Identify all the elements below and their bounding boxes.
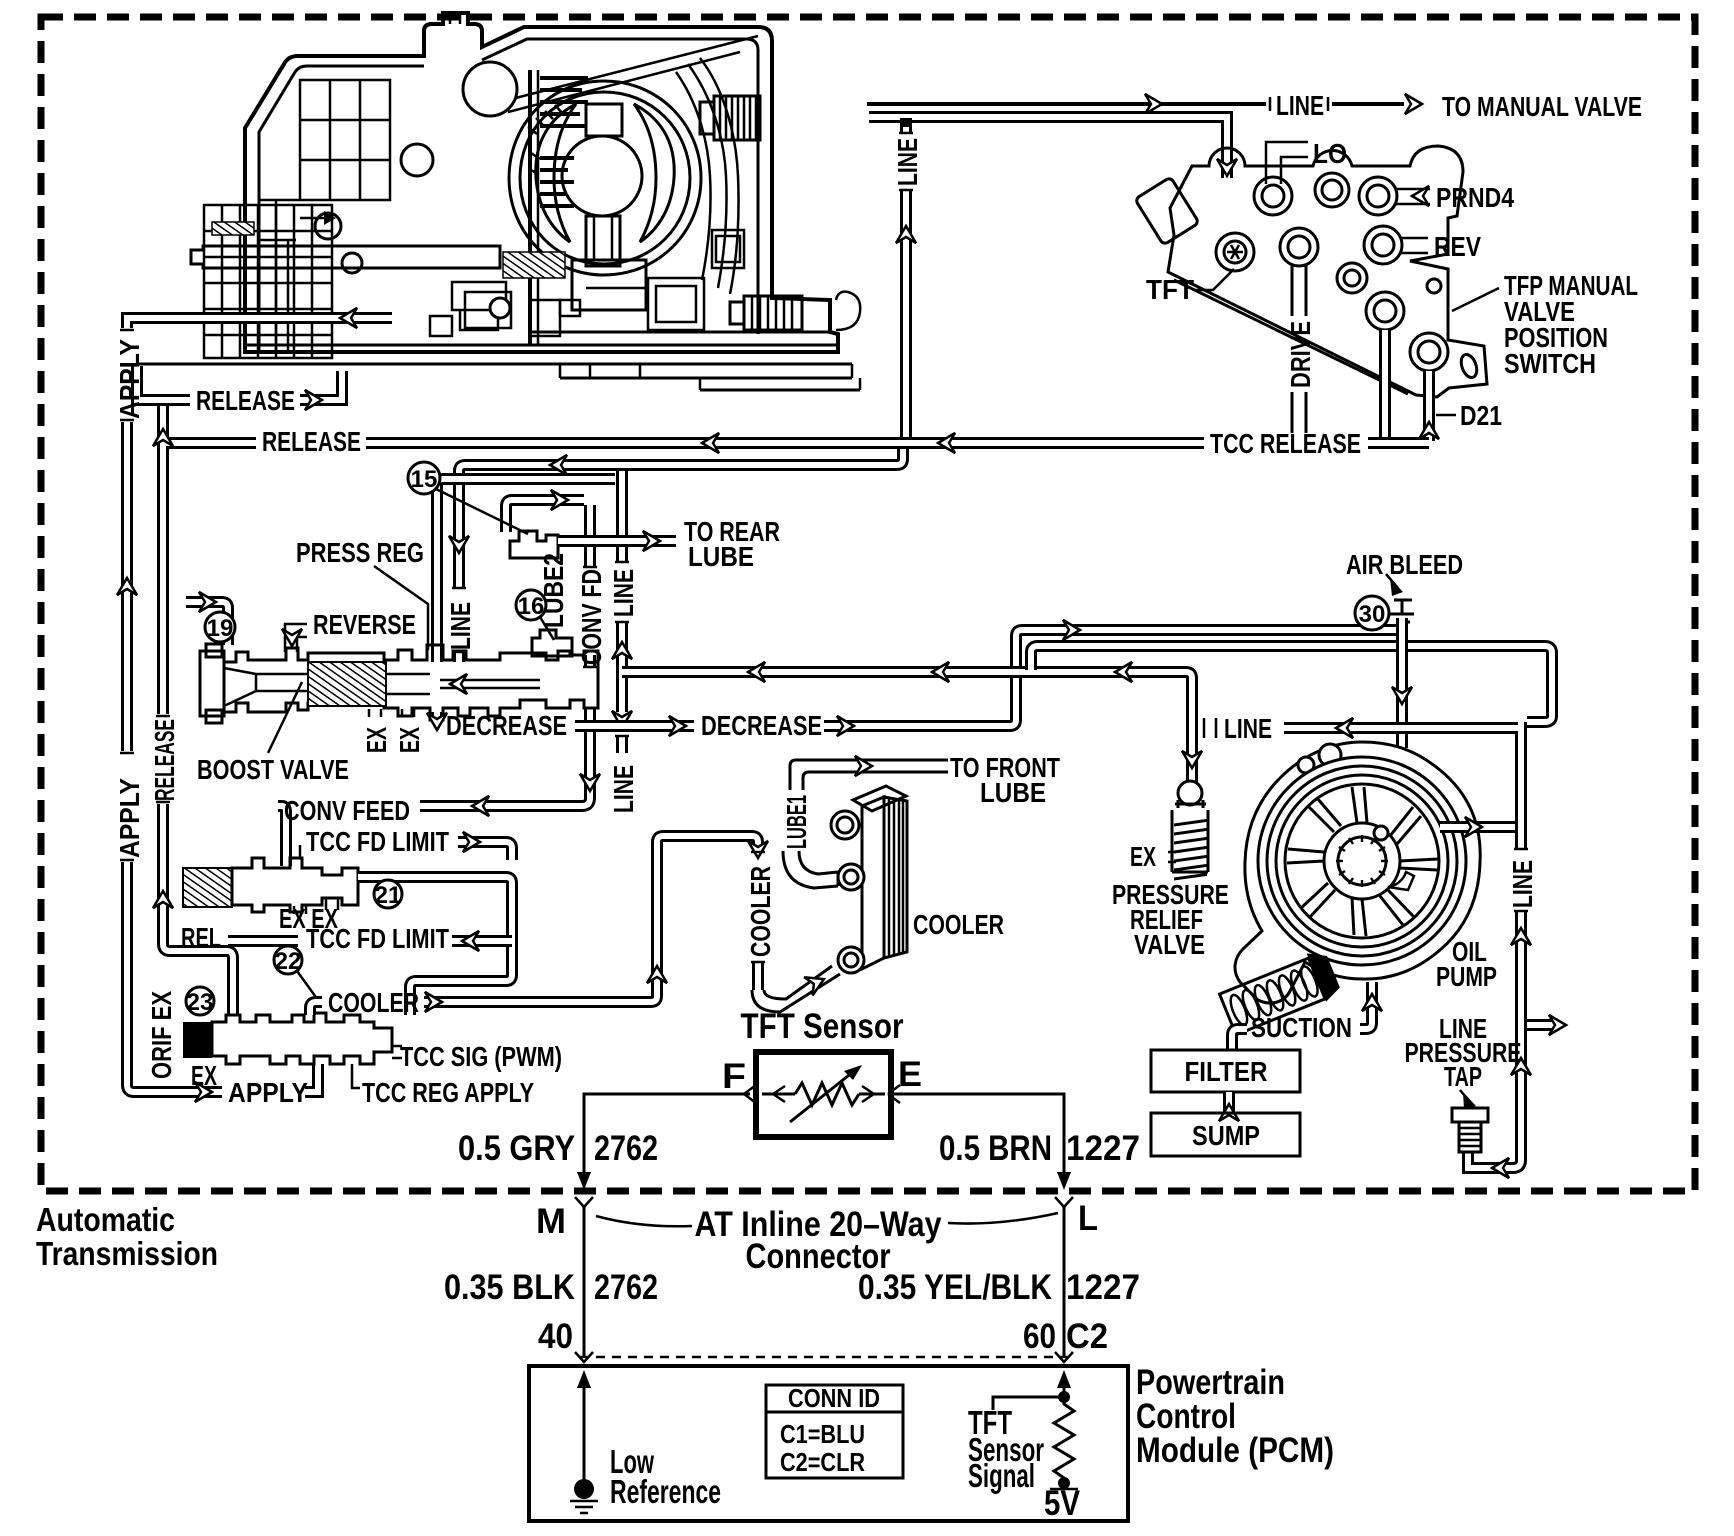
svg-text:PUMP: PUMP (1436, 961, 1497, 992)
wire M down to PCM (583, 1207, 586, 1357)
cooler hose lower (752, 966, 840, 1012)
svg-text:0.35 BLK: 0.35 BLK (444, 1268, 575, 1307)
svg-text:LINE: LINE (1507, 860, 1538, 908)
svg-text:LUBE1: LUBE1 (781, 795, 812, 849)
wire APPLY column (127, 318, 392, 1092)
boost valve piston lines (224, 668, 308, 706)
svg-text:LUBE: LUBE (980, 777, 1046, 808)
pump spokes (1287, 787, 1438, 936)
svg-text:Automatic: Automatic (36, 1201, 175, 1238)
TCC FD LIMIT valve spring (183, 868, 232, 907)
svg-text:C2: C2 (1066, 1317, 1108, 1356)
svg-text:C1=BLU: C1=BLU (780, 1419, 865, 1449)
wire RELEASE vertical column (163, 449, 233, 1015)
label EX at relief valve (1168, 852, 1176, 862)
wire H2 (437, 479, 615, 662)
regulator spring (308, 662, 386, 706)
svg-text:RELEASE: RELEASE (262, 426, 361, 457)
svg-text:LINE: LINE (445, 602, 476, 650)
svg-text:CONN ID: CONN ID (788, 1383, 880, 1413)
small circle upper mid (401, 144, 433, 176)
right bolt upper (714, 96, 760, 140)
svg-text:TCC RELEASE: TCC RELEASE (1210, 428, 1361, 459)
svg-text:F: F (722, 1057, 746, 1096)
wire REL link (228, 935, 298, 947)
svg-text:CONV FEED: CONV FEED (284, 795, 410, 826)
svg-text:LINE: LINE (1276, 90, 1324, 121)
left clutch stack (204, 205, 332, 358)
REV port (1364, 226, 1402, 264)
svg-text:TCC FD LIMIT: TCC FD LIMIT (306, 923, 449, 954)
svg-text:M: M (536, 1202, 566, 1241)
pump gear (1338, 837, 1386, 885)
converter left crescent (536, 104, 576, 242)
wire vertical LINE at top center (900, 118, 912, 443)
svg-text:REVERSE: REVERSE (313, 609, 416, 640)
wire DECREASE middle (575, 720, 694, 732)
svg-text:D21: D21 (1460, 400, 1502, 431)
svg-text:0.5 GRY: 0.5 GRY (458, 1129, 575, 1168)
label TCC FD LIMIT first with bracket (299, 845, 302, 858)
leaders to AT inline label (596, 1213, 1058, 1226)
filter box (1151, 1050, 1300, 1092)
svg-text:PRND4: PRND4 (1436, 182, 1514, 213)
circled 16 with leader (540, 617, 554, 640)
circled 21 (374, 880, 402, 908)
TFT sensor box (756, 1052, 891, 1137)
side fin comb (540, 158, 574, 206)
sensor signal wire with arrow (1063, 1376, 1066, 1397)
svg-text:23: 23 (187, 989, 214, 1016)
air bleed fitting (1390, 600, 1414, 622)
svg-text:APPLY: APPLY (114, 778, 145, 858)
svg-text:COOLER: COOLER (745, 866, 776, 957)
label EX EX below valve21 (294, 899, 338, 914)
TFT port with star (1216, 233, 1254, 271)
connector M tick (575, 1197, 593, 1207)
wire to LO label (1266, 142, 1308, 184)
svg-text:REV: REV (1434, 231, 1481, 262)
bottom pan lines (137, 332, 860, 390)
svg-text:30: 30 (1359, 601, 1386, 628)
wire tap branch right (1527, 1019, 1552, 1031)
wire filter to sump (1223, 1092, 1235, 1113)
label TCC REG APPLY with bracket (352, 1064, 360, 1088)
wire D2 down (1423, 371, 1435, 441)
svg-text:TFT: TFT (1146, 274, 1194, 305)
resistor zigzag (1054, 1397, 1074, 1487)
svg-text:LINE: LINE (608, 569, 639, 617)
wire feed to boost valve 19 (186, 602, 228, 645)
svg-text:DECREASE: DECREASE (701, 710, 822, 741)
svg-text:5V: 5V (1044, 1484, 1081, 1523)
wire V_L line column (616, 471, 628, 753)
port top middle (1315, 173, 1349, 207)
svg-text:COOLER: COOLER (328, 987, 419, 1018)
svg-text:22: 22 (275, 948, 302, 975)
svg-text:DECREASE: DECREASE (446, 710, 567, 741)
TFP manual valve position switch body (1168, 146, 1487, 397)
big circle top (463, 62, 517, 116)
PCM box (529, 1366, 1128, 1521)
wire LINE to manual valve (867, 102, 1404, 106)
converter hub (586, 216, 620, 266)
switch left connector tab (1135, 177, 1199, 245)
wire air bleed down to pump (1396, 618, 1408, 748)
radiator middle port (838, 864, 864, 890)
small spring detail left (212, 222, 254, 235)
TCC FD LIMIT valve body (232, 858, 358, 912)
label D21 (1436, 414, 1456, 417)
svg-text:0.5 BRN: 0.5 BRN (939, 1129, 1052, 1168)
svg-text:BOOST VALVE: BOOST VALVE (197, 754, 349, 785)
cooler hose upper (783, 851, 838, 888)
svg-text:TCC FD LIMIT: TCC FD LIMIT (306, 826, 449, 857)
line pressure tap bolt (1452, 1108, 1488, 1122)
top diagonal wedge (500, 36, 758, 112)
LO port (1254, 177, 1292, 215)
DRIVE port (1280, 228, 1318, 266)
svg-text:APPLY: APPLY (114, 339, 145, 419)
connector L tick (1055, 1197, 1073, 1207)
radiator body (862, 797, 884, 969)
pressure relief spring coil (1174, 820, 1207, 879)
switch inner diagonal edge (1174, 280, 1408, 394)
wire TCC RELEASE (163, 443, 1429, 449)
valve 16 fitting (532, 630, 572, 656)
PCM dashed connector line (580, 1356, 1069, 1359)
small circle pair lower (342, 253, 362, 273)
svg-text:ORIF EX: ORIF EX (146, 991, 177, 1079)
transmission housing outer contour (245, 13, 838, 352)
tiny circle (1427, 279, 1441, 293)
wire DECREASE stub with arrow (431, 712, 443, 718)
automatic transmission dashed border (41, 17, 1695, 1191)
wire RELEASE first (137, 366, 342, 400)
pump inner detail circle (1374, 826, 1388, 840)
svg-text:Transmission: Transmission (36, 1235, 218, 1272)
wire E line to pump riser (1284, 722, 1521, 1168)
svg-text:DRIVE: DRIVE (1285, 321, 1316, 388)
housing inner wall (259, 39, 758, 352)
svg-text:16: 16 (518, 593, 545, 620)
top slot tab (450, 13, 460, 24)
oval hole in tab (1458, 352, 1479, 379)
sump box (1151, 1113, 1300, 1156)
converter right crescent (634, 104, 674, 242)
pressure relief valve cap (1178, 781, 1202, 805)
svg-text:40: 40 (538, 1317, 573, 1356)
wire L down to PCM (1063, 1207, 1066, 1357)
thermistor diagonal arrow (790, 1068, 858, 1122)
thermistor symbol (762, 1083, 885, 1105)
converter scalloped ring (520, 92, 690, 264)
converter inner sphere (562, 136, 642, 216)
wire H3 to valve 15 (506, 500, 584, 532)
svg-text:C2=CLR: C2=CLR (780, 1447, 865, 1477)
radiator bolt top (831, 811, 859, 839)
svg-text:FILTER: FILTER (1185, 1056, 1268, 1087)
valve stem (386, 674, 540, 694)
left panel frame (300, 80, 390, 200)
circled 30 (1355, 596, 1389, 630)
pump hub (1324, 823, 1400, 899)
svg-text:L: L (1078, 1199, 1098, 1238)
inner housing steps left (259, 200, 300, 352)
wire to REV (1401, 238, 1428, 253)
small circle mid switch (1337, 263, 1367, 293)
vertical divider plate (528, 70, 532, 345)
radiator lower port (838, 947, 864, 973)
ground symbol (574, 1479, 594, 1499)
svg-text:COOLER: COOLER (913, 909, 1004, 940)
circled 15 with leader (436, 489, 528, 534)
svg-text:SUMP: SUMP (1192, 1120, 1260, 1151)
wire DRIVE down (1292, 265, 1306, 433)
svg-text:2762: 2762 (594, 1268, 658, 1307)
svg-text:15: 15 (411, 466, 438, 493)
boost valve left cap (200, 651, 224, 716)
valve 15 fitting (510, 531, 558, 558)
svg-text:TO MANUAL VALVE: TO MANUAL VALVE (1442, 91, 1642, 122)
bottom stud bolts (560, 300, 580, 316)
svg-text:LINE: LINE (1224, 713, 1272, 744)
wire F to PCM pin 40 (584, 1094, 750, 1180)
radiator striped core (884, 797, 907, 958)
wire label gap ticks (120, 97, 1528, 962)
wire E to connector L (894, 1094, 1064, 1180)
svg-text:PRESS REG: PRESS REG (296, 537, 424, 568)
housing S-curve right of converter (676, 58, 739, 294)
svg-text:EX: EX (191, 1060, 217, 1091)
wire release vertical link (157, 406, 169, 443)
wire suction from pump (1232, 982, 1372, 1050)
svg-text:2762: 2762 (594, 1129, 658, 1168)
wire COOLER from valve22 (310, 836, 758, 1015)
pump outlet wire (1440, 821, 1515, 833)
svg-text:LUBE: LUBE (688, 541, 754, 572)
svg-text:E: E (898, 1055, 922, 1094)
svg-text:RELEASE: RELEASE (149, 719, 180, 801)
svg-text:RELEASE: RELEASE (196, 385, 295, 416)
port D1 (1366, 292, 1404, 330)
TCC regulator valve black plug (183, 1022, 212, 1058)
air bleed arrow (1390, 578, 1403, 596)
right side curl bracket (836, 292, 860, 330)
sphere cap slot (586, 104, 622, 136)
svg-text:LINE: LINE (608, 765, 639, 813)
svg-text:Reference: Reference (610, 1473, 721, 1510)
svg-text:REL: REL (181, 922, 221, 953)
label LINE with end ticks (1204, 718, 1216, 738)
small circle lower mid (315, 213, 341, 239)
wire to PRND4 (1396, 189, 1430, 204)
circled 19 (205, 612, 235, 642)
svg-text:60: 60 (1023, 1317, 1056, 1356)
circled 22 with leader (297, 971, 318, 1000)
svg-text:1227: 1227 (1066, 1129, 1140, 1168)
svg-text:TAP: TAP (1444, 1061, 1482, 1092)
pump bumps top (1298, 757, 1314, 773)
port D2 (1410, 333, 1448, 371)
svg-text:21: 21 (375, 882, 402, 909)
wire TO REAR LUBE (558, 535, 676, 547)
svg-text:VALVE: VALVE (1134, 929, 1205, 960)
svg-text:Signal: Signal (968, 1457, 1035, 1494)
wire CONV FD vertical (278, 505, 590, 866)
svg-text:19: 19 (207, 615, 234, 642)
wire D upper line run (1031, 646, 1552, 722)
pump concentric rings (1258, 757, 1466, 965)
pressure regulator and boost valve body (224, 645, 598, 720)
right bolt lower (744, 296, 802, 330)
label TCC SIG (PWM) with ticks (392, 1046, 402, 1058)
circled 23 (186, 987, 214, 1015)
wire D1 down (1379, 330, 1391, 440)
svg-text:LO: LO (1313, 138, 1347, 169)
PRND4 port (1359, 177, 1397, 215)
main shaft bolt (191, 246, 500, 268)
low reference wire with arrow (583, 1376, 586, 1482)
REVERSE port bracket (285, 624, 307, 652)
svg-text:Module (PCM): Module (PCM) (1136, 1431, 1334, 1470)
wire H1 from TCC release down-left (459, 449, 903, 662)
svg-text:SUCTION: SUCTION (1251, 1012, 1352, 1043)
oil pump outer housing (1235, 742, 1480, 1003)
pump tail spring (1218, 947, 1343, 1038)
clutch apply arrow (300, 217, 330, 220)
radiator top cap (853, 786, 906, 811)
svg-text:APPLY: APPLY (228, 1077, 308, 1108)
svg-text:TCC SIG (PWM): TCC SIG (PWM) (400, 1041, 562, 1072)
svg-text:AIR BLEED: AIR BLEED (1346, 549, 1463, 580)
wire DECREASE to line riser (824, 630, 1402, 726)
CONN ID table (766, 1385, 903, 1478)
svg-text:EX: EX (394, 727, 425, 753)
wire line branch to switch port (869, 117, 1227, 178)
wire valve21 to valve22 right feed (358, 877, 512, 1015)
svg-text:0.35 YEL/BLK: 0.35 YEL/BLK (858, 1268, 1052, 1307)
upper fin comb (540, 78, 588, 126)
svg-text:SWITCH: SWITCH (1504, 348, 1596, 379)
tap arrow (1463, 1092, 1476, 1109)
label LINE vertical on riser (1508, 850, 1534, 912)
svg-text:EX: EX (361, 727, 392, 753)
svg-text:LINE: LINE (892, 138, 923, 186)
svg-text:EX: EX (1130, 841, 1156, 872)
lower small blocks (452, 282, 506, 330)
svg-text:TFT Sensor: TFT Sensor (741, 1007, 904, 1046)
EX EX stubs below regulator (369, 709, 414, 717)
torque converter outer shell (509, 81, 701, 275)
wire TO FRONT LUBE bracket (790, 760, 948, 790)
TCC regulator apply valve body (212, 1013, 392, 1064)
wire B line distribution (622, 672, 1192, 784)
svg-text:TCC REG APPLY: TCC REG APPLY (362, 1077, 534, 1108)
svg-text:1227: 1227 (1066, 1268, 1140, 1307)
